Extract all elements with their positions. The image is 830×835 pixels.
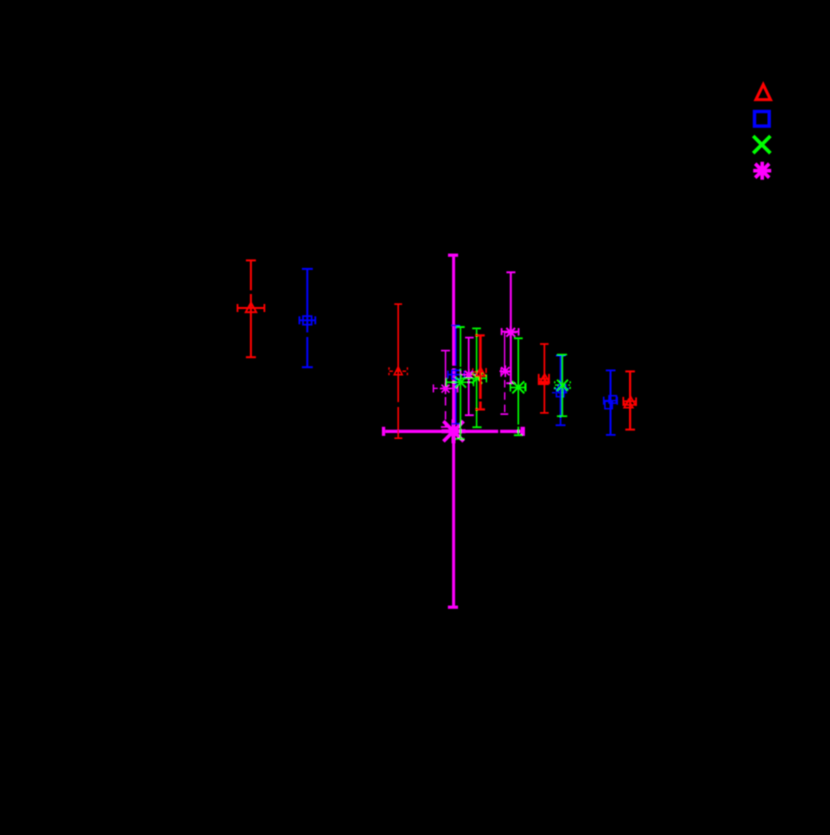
P10 red point (479, 336, 482, 399)
legend green X (753, 136, 770, 153)
P2 blue point (306, 270, 308, 333)
P11 magenta point (510, 273, 512, 383)
legend red triangle (756, 85, 771, 100)
P12 magenta point (504, 332, 506, 371)
P8 magenta point (468, 338, 470, 415)
legend blue square (755, 112, 770, 127)
P6 blue point (455, 326, 457, 366)
P1 red point (250, 261, 252, 290)
P15 green point (561, 355, 563, 416)
P18 blue points (610, 371, 612, 434)
P13 green point (517, 339, 519, 424)
legend magenta asterisk (753, 162, 771, 180)
P16 blue points (560, 356, 562, 425)
P17 red points (629, 372, 631, 429)
P9 green point (476, 329, 478, 427)
P7 green point (460, 328, 462, 367)
P3 red point (397, 305, 399, 403)
P14 red point (543, 345, 545, 413)
P5 big magenta point (452, 257, 455, 366)
P4 magenta point (445, 351, 447, 389)
